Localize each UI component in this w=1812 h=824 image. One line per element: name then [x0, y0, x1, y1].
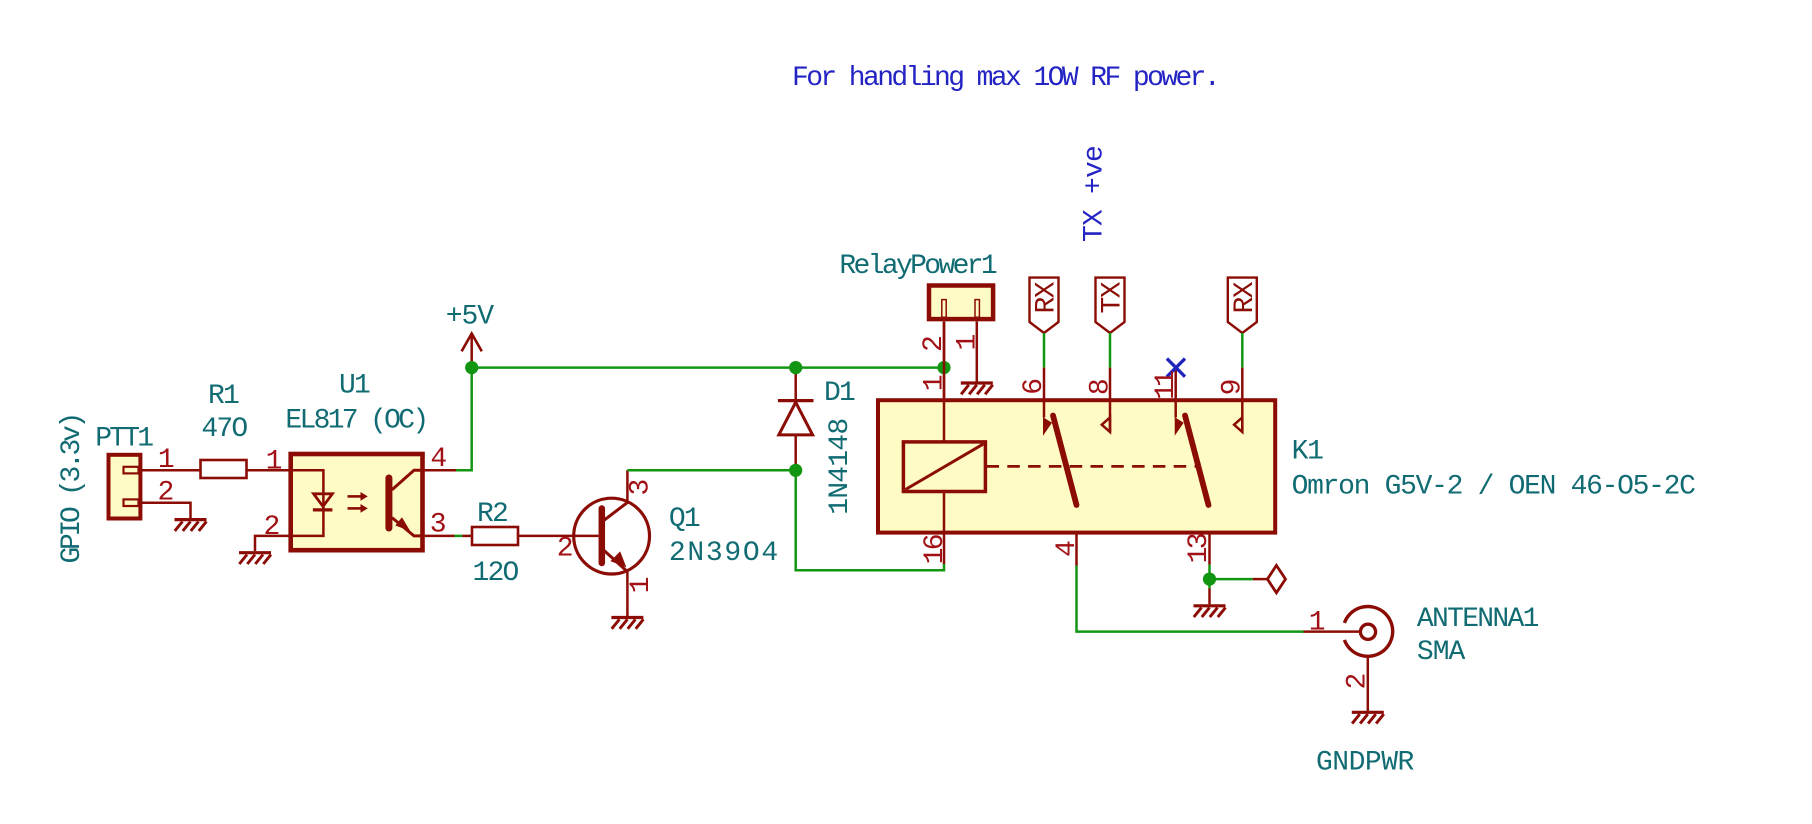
svg-text:Omron G5V-2 / OEN 46-O5-2C: Omron G5V-2 / OEN 46-O5-2C [1292, 472, 1696, 503]
svg-text:1: 1 [626, 577, 657, 594]
svg-text:RX: RX [1032, 281, 1063, 313]
svg-text:1: 1 [158, 445, 175, 476]
svg-text:R2: R2 [477, 499, 507, 530]
svg-text:RX: RX [1230, 281, 1261, 313]
svg-text:2: 2 [264, 512, 281, 543]
svg-text:GNDPWR: GNDPWR [1316, 748, 1415, 779]
svg-text:1N4148: 1N4148 [825, 419, 856, 515]
svg-text:EL817 (OC): EL817 (OC) [285, 406, 426, 437]
svg-text:1: 1 [919, 374, 950, 391]
svg-text:ANTENNA1: ANTENNA1 [1417, 604, 1539, 635]
svg-text:+5V: +5V [446, 302, 494, 333]
svg-text:2: 2 [557, 533, 574, 564]
svg-text:8: 8 [1085, 378, 1116, 395]
svg-text:3: 3 [625, 479, 656, 496]
svg-text:2: 2 [158, 477, 175, 508]
svg-text:Q1: Q1 [669, 504, 700, 535]
svg-text:D1: D1 [824, 378, 855, 409]
svg-text:K1: K1 [1292, 437, 1324, 468]
svg-text:16: 16 [920, 535, 951, 564]
svg-text:11: 11 [1151, 371, 1182, 400]
svg-text:PTT1: PTT1 [95, 424, 153, 455]
svg-text:GPIO (3.3v): GPIO (3.3v) [57, 415, 88, 564]
svg-text:1: 1 [1309, 608, 1326, 639]
svg-text:TX +ve: TX +ve [1080, 146, 1111, 242]
svg-text:2N39O4: 2N39O4 [669, 538, 780, 569]
svg-text:1: 1 [953, 334, 984, 351]
svg-text:RelayPower1: RelayPower1 [839, 251, 997, 282]
svg-text:1: 1 [266, 446, 283, 477]
svg-text:6: 6 [1019, 378, 1050, 395]
svg-text:12O: 12O [473, 558, 519, 589]
svg-text:R1: R1 [208, 381, 239, 412]
svg-text:2: 2 [1343, 673, 1374, 690]
svg-text:4: 4 [1052, 540, 1083, 557]
svg-text:SMA: SMA [1417, 637, 1466, 668]
svg-text:13: 13 [1184, 533, 1215, 563]
svg-text:9: 9 [1218, 379, 1249, 396]
svg-text:47O: 47O [201, 414, 247, 445]
svg-text:TX: TX [1098, 281, 1129, 313]
svg-text:U1: U1 [339, 370, 370, 401]
svg-text:For handling max 1OW RF power.: For handling max 1OW RF power. [792, 63, 1218, 94]
